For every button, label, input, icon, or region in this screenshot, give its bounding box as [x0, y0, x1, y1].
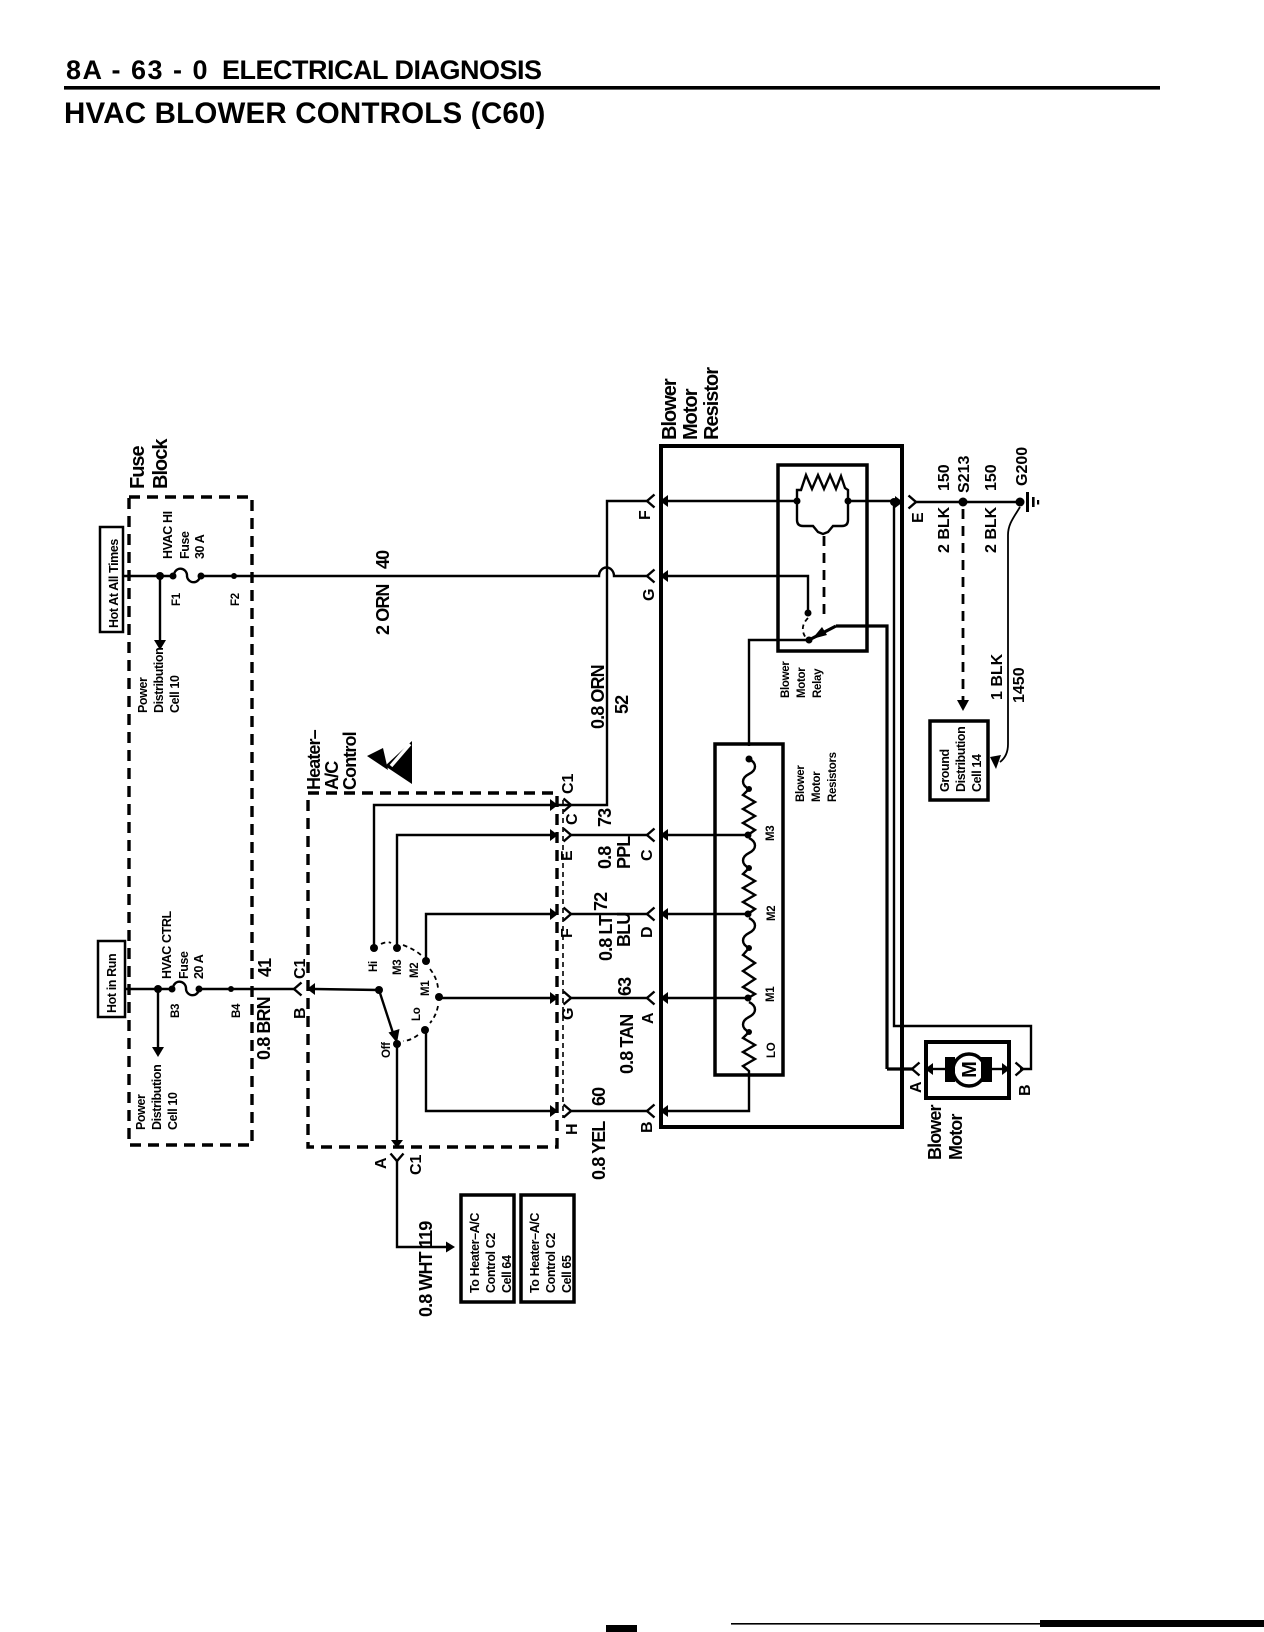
- svg-text:E: E: [559, 850, 576, 861]
- switch contact M1: [435, 993, 443, 1001]
- fuse B3 name label: [160, 911, 206, 979]
- wire: 0.8 TAN 63 row: [571, 997, 648, 999]
- svg-text:Blower: Blower: [780, 661, 792, 698]
- blower motor label: [925, 1104, 966, 1160]
- svg-text:E: E: [910, 512, 927, 523]
- svg-text:B: B: [1017, 1084, 1034, 1096]
- connector C1 pin E (heater control): [550, 829, 571, 842]
- wire: G200 lead to ground distribution: [1000, 507, 1020, 762]
- svg-text:M1: M1: [420, 980, 432, 996]
- arrowhead into reference box: [446, 1242, 455, 1253]
- wire: 0.8 LT BLU 72 row: [571, 913, 648, 915]
- arrowhead power distribution (bottom): [152, 1047, 164, 1057]
- svg-text:Fuse: Fuse: [177, 951, 191, 979]
- tap M1: [745, 995, 752, 1002]
- wire: LO end down and to pin B: [667, 1075, 749, 1111]
- svg-text:2 BLK: 2 BLK: [983, 506, 1000, 553]
- svg-text:B: B: [292, 1007, 309, 1019]
- svg-text:M2: M2: [409, 963, 421, 978]
- svg-text:To Heater–A/C: To Heater–A/C: [468, 1213, 482, 1293]
- svg-text:C: C: [639, 849, 656, 861]
- connector pin A (blower motor): [912, 1063, 933, 1076]
- svg-text:Lo: Lo: [411, 1007, 423, 1021]
- reference box text cell 64: [468, 1213, 514, 1293]
- svg-text:Relay: Relay: [812, 668, 824, 698]
- svg-text:Control C2: Control C2: [544, 1233, 558, 1293]
- svg-text:M3: M3: [765, 826, 777, 841]
- svg-text:ELECTRICAL DIAGNOSIS: ELECTRICAL DIAGNOSIS: [222, 55, 542, 85]
- svg-text:Block: Block: [150, 438, 172, 489]
- svg-text:M: M: [959, 1062, 981, 1078]
- wire: tap M1 to pin A: [667, 997, 748, 999]
- svg-text:Hot in Run: Hot in Run: [105, 954, 119, 1013]
- svg-text:A/C: A/C: [322, 761, 342, 790]
- wire: battery feed to fuse F1: [123, 575, 173, 577]
- ground G200 symbol: [1016, 492, 1040, 512]
- svg-text:0.8 WHT: 0.8 WHT: [416, 1251, 436, 1317]
- svg-text:Motor: Motor: [811, 771, 823, 802]
- wire: 2 BLK 150 pin E to S213 to G200: [916, 501, 1020, 503]
- node: [746, 865, 752, 871]
- connector pin C of resistor block: [647, 829, 668, 842]
- svg-text:Control C2: Control C2: [484, 1233, 498, 1293]
- svg-text:S213: S213: [956, 456, 973, 493]
- svg-text:Cell 64: Cell 64: [500, 1255, 514, 1293]
- svg-text:0.8: 0.8: [595, 846, 615, 869]
- switch contact M2: [422, 957, 430, 965]
- svg-text:Distribution: Distribution: [150, 1065, 164, 1130]
- ESD caution symbol: [367, 741, 412, 784]
- svg-text:To Heater–A/C: To Heater–A/C: [528, 1213, 542, 1293]
- connector pin D of resistor block: [647, 908, 668, 921]
- svg-text:HVAC CTRL: HVAC CTRL: [160, 911, 174, 979]
- svg-text:BLU: BLU: [614, 913, 634, 947]
- wire: 0.8 BRN 41 fuse B4 to heater pin B: [199, 988, 294, 990]
- fuse F1/F2 HVAC HI 30A symbol: [170, 569, 205, 583]
- splice S213: [959, 498, 968, 507]
- svg-text:B4: B4: [231, 1003, 243, 1018]
- switch contact Lo: [421, 1026, 429, 1034]
- wire: tap M2 to pin D: [667, 913, 748, 915]
- blower motor box: [926, 1042, 1009, 1098]
- Hot At All Times tag box: [100, 527, 123, 632]
- relay coil (zigzag loop): [794, 475, 852, 534]
- connector pin E of resistor block: [895, 496, 916, 509]
- svg-text:41: 41: [255, 958, 275, 977]
- svg-text:C1: C1: [408, 1154, 425, 1175]
- blower motor resistors label: [795, 752, 839, 802]
- svg-text:0.8 ORN: 0.8 ORN: [588, 665, 608, 729]
- terminal F2 node: [231, 573, 237, 579]
- resistor chain coil bump 2: [743, 838, 755, 868]
- connector C1 pin A (heater control bottom): [391, 1140, 404, 1161]
- armature travel dashed arc: [803, 618, 808, 638]
- reference box text cell 65: [528, 1213, 574, 1293]
- resistor chain coil bump 4: [743, 1002, 755, 1032]
- relay fixed contact (rest, to resistors): [806, 637, 813, 644]
- svg-text:0.8 BRN: 0.8 BRN: [254, 997, 274, 1060]
- bottom page mark: [606, 1625, 637, 1632]
- svg-text:H: H: [564, 1123, 581, 1135]
- connector C1 pin F (heater control): [550, 908, 571, 921]
- svg-text:Hi: Hi: [368, 961, 380, 972]
- svg-text:8A - 63 - 0: 8A - 63 - 0: [66, 55, 209, 85]
- header rule: [64, 86, 1160, 90]
- fuse F1 name label: [161, 511, 207, 559]
- svg-text:M1: M1: [765, 986, 777, 1002]
- svg-text:HVAC HI: HVAC HI: [161, 511, 175, 559]
- resistor chain coil bump 3: [743, 918, 755, 948]
- junction node at B3 branch: [154, 985, 162, 993]
- armature arrowhead: [812, 627, 827, 639]
- relay armature arm: [809, 626, 836, 640]
- wire: M2 contact to pin F row: [426, 914, 551, 961]
- wire label 0.8 PPL: [595, 836, 634, 869]
- svg-text:M2: M2: [766, 906, 778, 921]
- svg-text:B: B: [639, 1121, 656, 1133]
- svg-text:1 BLK: 1 BLK: [989, 653, 1006, 700]
- svg-text:Blower: Blower: [659, 378, 681, 440]
- resistor element M2 (zigzag): [743, 868, 755, 914]
- blower motor relay box: [778, 465, 867, 651]
- svg-text:F: F: [637, 510, 654, 520]
- ground distribution box text: [938, 727, 984, 792]
- arrowhead at ground distribution box: [990, 755, 1001, 769]
- connector C1 pin H (heater control): [550, 1105, 571, 1118]
- terminal B4 node: [228, 986, 234, 992]
- switch wiper arm: [379, 990, 393, 1033]
- wire: tap M3 to pin C: [667, 834, 748, 836]
- connector C1 face dashed line: [562, 800, 564, 1118]
- arrowhead to ground distribution: [957, 700, 969, 711]
- svg-text:150: 150: [983, 464, 1000, 491]
- resistor chain node (HI): [746, 756, 753, 763]
- svg-text:Distribution: Distribution: [954, 727, 968, 792]
- svg-text:G: G: [560, 1008, 577, 1020]
- blower motor resistor label: [659, 367, 723, 440]
- svg-text:F1: F1: [171, 592, 183, 606]
- svg-text:2 BLK: 2 BLK: [936, 506, 953, 553]
- wire: relay output (thick) down to motor feed: [836, 626, 887, 1069]
- Hot in Run tag box: [98, 941, 125, 1017]
- tap M3: [745, 832, 752, 839]
- tap M2: [745, 911, 752, 918]
- blower motor relay label: [780, 661, 824, 698]
- node: [746, 1029, 752, 1035]
- svg-text:LO: LO: [766, 1042, 778, 1058]
- svg-text:Off: Off: [381, 1042, 393, 1058]
- reference box: To Heater-A/C Control C2 Cell 65: [521, 1195, 574, 1302]
- svg-text:D: D: [639, 926, 656, 938]
- switch contact M3: [393, 944, 401, 952]
- bottom page edge line: [731, 1623, 1041, 1625]
- relay fixed contact (energized): [805, 610, 812, 617]
- Power Distribution Cell 10 label (bottom): [134, 1065, 180, 1130]
- svg-text:Cell 10: Cell 10: [166, 1092, 180, 1130]
- wire: M1 contact to pin G row: [441, 997, 551, 999]
- svg-text:0.8 YEL: 0.8 YEL: [589, 1121, 609, 1180]
- connector pin F of resistor block: [647, 495, 668, 508]
- svg-text:63: 63: [615, 977, 635, 996]
- svg-text:Motor: Motor: [680, 388, 702, 440]
- svg-text:F: F: [559, 928, 576, 938]
- svg-text:Control: Control: [340, 732, 360, 790]
- switch contact Off: [393, 1040, 401, 1048]
- svg-text:40: 40: [373, 550, 393, 569]
- svg-text:60: 60: [589, 1087, 609, 1106]
- connector pin G of resistor block: [647, 570, 668, 583]
- svg-text:Heater–: Heater–: [304, 729, 324, 790]
- svg-text:PPL: PPL: [614, 836, 634, 869]
- resistor chain coil bump 1: [743, 759, 755, 789]
- svg-text:Blower: Blower: [795, 765, 807, 802]
- heater-A/C control dashed outline: [308, 793, 557, 1147]
- svg-text:Fuse: Fuse: [178, 531, 192, 559]
- svg-text:2 ORN: 2 ORN: [373, 584, 393, 635]
- wire: 0.8 WHT 119 to control head: [397, 1161, 446, 1247]
- svg-text:150: 150: [936, 464, 953, 491]
- svg-text:G: G: [641, 589, 658, 601]
- connector C1 pin C (heater control): [550, 799, 571, 812]
- motor symbol: [933, 1054, 1002, 1086]
- svg-text:C: C: [564, 813, 581, 825]
- svg-text:Motor: Motor: [946, 1114, 966, 1160]
- connector pin A of resistor block: [647, 992, 668, 1005]
- wire: branch down to power distribution (bottom): [157, 989, 159, 1048]
- wire: pin B to switch wiper: [314, 989, 379, 990]
- svg-text:Cell 14: Cell 14: [970, 754, 984, 792]
- fuse B3/B4 HVAC CTRL 20A symbol: [169, 982, 203, 996]
- svg-text:0.8 TAN: 0.8 TAN: [617, 1015, 637, 1074]
- wiper arrowhead: [389, 1029, 400, 1043]
- svg-text:Hot At All Times: Hot At All Times: [107, 539, 121, 628]
- connector C1 pin B (heater control): [294, 983, 315, 996]
- svg-text:M3: M3: [392, 960, 404, 975]
- connector C1 pin G (heater control): [550, 992, 571, 1005]
- svg-text:Power: Power: [134, 1094, 148, 1130]
- svg-text:A: A: [373, 1157, 390, 1169]
- wire: run feed to fuse B3: [125, 988, 172, 990]
- wire: 0.8 PPL 73 row: [571, 834, 648, 836]
- svg-text:A: A: [640, 1012, 657, 1024]
- ground junction node on pin E row: [890, 498, 898, 506]
- wire: Off contact down to pin A: [396, 1047, 398, 1143]
- svg-text:73: 73: [595, 808, 615, 827]
- wire: pin F to relay coil row: [667, 500, 797, 502]
- svg-text:Power: Power: [136, 677, 150, 713]
- wire: branch down to power distribution: [159, 576, 161, 641]
- relay coil-to-armature dashed link: [823, 536, 826, 618]
- svg-text:Cell 10: Cell 10: [168, 675, 182, 713]
- svg-text:G200: G200: [1014, 447, 1031, 486]
- junction node at F1 branch: [156, 572, 164, 580]
- node: [746, 786, 752, 792]
- resistor element LO (zigzag): [743, 1032, 755, 1075]
- wire: 0.8 YEL 60 row: [571, 1110, 648, 1112]
- Power Distribution Cell 10 label (top): [136, 648, 182, 713]
- svg-text:72: 72: [591, 892, 611, 911]
- node: [746, 945, 752, 951]
- switch wiper pivot: [375, 986, 383, 994]
- svg-text:1450: 1450: [1011, 667, 1028, 703]
- reference box: To Heater-A/C Control C2 Cell 64: [461, 1195, 514, 1302]
- svg-text:52: 52: [612, 695, 632, 714]
- wire: 2 ORN 40 fuse F2 to resistor pin G, with hop over vertical: [201, 568, 648, 577]
- wire: Lo contact to pin H row: [426, 1032, 551, 1111]
- blower motor resistors box: [715, 744, 783, 1075]
- blower motor resistor assembly box: [661, 446, 902, 1127]
- svg-text:0.8 LT: 0.8 LT: [596, 915, 616, 961]
- reference box: Ground Distribution Cell 14: [930, 721, 988, 800]
- heater A/C control label: [304, 729, 360, 790]
- switch contact Hi: [370, 944, 378, 952]
- svg-text:F2: F2: [230, 593, 242, 606]
- wire: 0.8 ORN 52 from heater pin C up to resistor pin F: [571, 501, 648, 805]
- svg-text:Ground: Ground: [938, 749, 952, 792]
- arrowhead power distribution (top): [154, 640, 166, 650]
- svg-text:Resistor: Resistor: [701, 367, 723, 440]
- svg-text:Motor: Motor: [796, 667, 808, 698]
- connector pin B (blower motor): [1002, 1063, 1023, 1076]
- svg-text:20 A: 20 A: [192, 954, 206, 979]
- wire: coil to pin E / ground node: [848, 500, 896, 502]
- svg-text:B3: B3: [170, 1004, 182, 1018]
- svg-text:C1: C1: [292, 958, 309, 979]
- wire: pin G feed into relay fixed contact: [667, 576, 808, 610]
- connector pin B of resistor block: [647, 1105, 668, 1118]
- svg-text:Blower: Blower: [925, 1104, 945, 1160]
- svg-text:A: A: [908, 1081, 925, 1093]
- svg-text:119: 119: [416, 1221, 436, 1248]
- svg-text:HVAC BLOWER CONTROLS (C60): HVAC BLOWER CONTROLS (C60): [64, 97, 546, 130]
- dashed wire: S213 to ground distribution: [962, 509, 965, 700]
- wire: relay output into motor pin A: [887, 1067, 912, 1070]
- svg-text:Cell 65: Cell 65: [560, 1255, 574, 1293]
- wire: M3 contact to pin E row: [397, 835, 551, 948]
- svg-text:Resistors: Resistors: [827, 752, 839, 802]
- svg-text:Distribution: Distribution: [152, 648, 166, 713]
- fuse block dashed outline: [129, 497, 252, 1145]
- resistor element M1 (zigzag): [743, 948, 755, 998]
- wire: relay common to resistor HI node: [749, 640, 809, 746]
- wire: ground drop from pin E row to motor return: [894, 502, 1031, 1069]
- switch travel dashed arc: [381, 942, 438, 1041]
- svg-text:Fuse: Fuse: [127, 445, 149, 489]
- svg-text:C1: C1: [560, 773, 577, 794]
- wire: Hi contact to pin C row: [374, 805, 571, 948]
- svg-text:30 A: 30 A: [193, 534, 207, 559]
- fuse block label: [127, 438, 172, 489]
- resistor element M3 (zigzag): [743, 789, 755, 835]
